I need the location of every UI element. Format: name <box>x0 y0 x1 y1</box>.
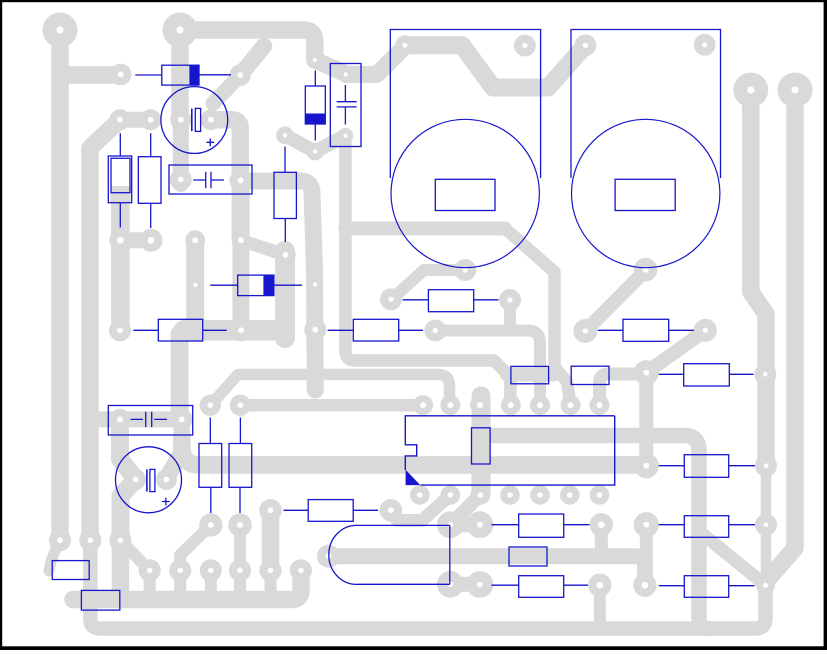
wire vertical x195 pads <box>186 240 204 330</box>
wire pad (60,540) elbow <box>49 540 60 571</box>
wire via V6 corner down to pad C2-2 <box>211 120 240 181</box>
capacitor C3 symbol <box>337 85 357 125</box>
wire IC vertical x481 <box>472 396 491 495</box>
IC U1 pin pad bottom 3 <box>471 485 491 505</box>
resistor R12 body <box>684 364 730 386</box>
resistor R17 body <box>519 576 564 598</box>
pad R8 right / H1 start <box>424 320 446 342</box>
diode D2 leads <box>314 71 316 141</box>
pad relay X2 <box>437 511 464 538</box>
via row2 a <box>109 229 131 251</box>
wire IC bus y435 corner down x699 to bottom bus <box>481 436 709 629</box>
capacitor C1 plate left line <box>191 109 193 132</box>
wire diagonal via V2 to net-B <box>240 46 264 75</box>
pad R6 top <box>200 395 221 416</box>
wire C5 plus pad down to pad row3 <box>121 480 136 541</box>
diode D2 cathode band <box>305 114 325 125</box>
wire H1 from pad (435,330) corner down <box>435 331 540 406</box>
wire pad (240,405) to IC pin1 pad <box>240 399 423 412</box>
board border frame <box>0 0 827 2</box>
diode D3 cathode band <box>263 275 274 296</box>
pad RB right <box>755 514 777 536</box>
pad R8 left <box>304 319 326 341</box>
via row1 b <box>140 109 161 130</box>
capacitor C3 body <box>330 64 361 147</box>
wire diagonal pad (241,240) to pad (285,255) <box>241 240 286 255</box>
potentiometer VR2 window <box>615 179 675 210</box>
resistor R6 leads <box>209 418 212 514</box>
IC U1 pin pad top 4 <box>501 395 521 415</box>
resistor R10 body <box>623 319 669 341</box>
resistor R5 wires <box>133 329 226 331</box>
capacitor C2 body <box>169 165 252 194</box>
resistor R9 wires <box>403 299 499 301</box>
wire relay pads X4-X5 <box>450 577 480 592</box>
pad C3 top <box>338 67 354 83</box>
resistor R16 body <box>519 514 564 537</box>
wire net-A vertical from pad TP1 <box>51 30 69 540</box>
resistor R3 body <box>274 172 296 218</box>
capacitor C5 outline <box>116 447 182 513</box>
IC U1 pin pad top 3 <box>470 395 490 415</box>
capacitor C2 symbol <box>193 172 224 189</box>
via row1 c <box>170 109 191 130</box>
op-amp U1 pin1 triangle <box>406 470 421 485</box>
pad pot2 right <box>694 34 716 56</box>
wire IC pin3 diagonal to relay pad X2 <box>451 495 480 525</box>
pad R7 top <box>230 395 251 416</box>
IC U1 pin pad top 6 <box>561 395 581 415</box>
IC U1 pin pad bottom 5 <box>530 485 550 505</box>
wire stub cap C4 left to C5 plus pad <box>120 419 135 477</box>
pad row4 4 <box>229 559 251 581</box>
wire big pad TP4 down with diagonal <box>766 90 796 582</box>
pad relay X5 <box>467 571 494 598</box>
pad row4 5 <box>259 559 281 581</box>
resistor R6 body <box>199 444 222 488</box>
diode D3 body <box>238 275 274 296</box>
potentiometer VR2 body circle <box>572 119 720 267</box>
potentiometer VR1 frame <box>390 30 540 179</box>
via row1 a <box>110 109 131 130</box>
resistor R19 body <box>684 516 728 538</box>
wire segment y374 east <box>507 368 554 382</box>
IC U1 pin pad bottom 7 <box>590 485 610 505</box>
resistor R15 body <box>308 500 353 522</box>
capacitor C4 body <box>108 406 192 436</box>
diode D1 wires <box>135 74 231 76</box>
pad C5 plus <box>125 469 146 490</box>
wire diagonal x699 to pad (765,585) <box>699 531 766 585</box>
resistor R3 leads <box>284 147 286 243</box>
wire pad TP2 down to via row <box>171 30 189 120</box>
potentiometer VR1 window <box>435 179 495 210</box>
jumper W2 body <box>81 590 119 610</box>
jumper W1 body <box>52 561 89 580</box>
via V2 <box>229 64 251 86</box>
pad row3 a <box>49 529 71 551</box>
resistor R15 wires <box>284 509 379 511</box>
pad TP4 big <box>778 73 813 108</box>
wire R6 pad diagonal to (180,570) <box>180 525 211 570</box>
pad R4 left <box>187 277 203 293</box>
pad P3 <box>307 52 323 68</box>
wire P8 to pot1 pad P4 <box>346 47 405 75</box>
pad R9 left <box>380 288 402 310</box>
IC U1 pin pad top 2 <box>440 395 460 415</box>
wire diagonal pad (120,540) to (149,570) <box>120 540 149 570</box>
capacitor C5 plate right <box>150 469 155 491</box>
pad diode bottom <box>306 143 324 161</box>
wire wiper pot2 to pad (585,331) <box>585 270 646 331</box>
resistor R10 wires <box>598 329 694 331</box>
wire wiper pot1 to pad (391,299) <box>391 270 465 300</box>
wire stub under fuse F1 <box>111 186 131 202</box>
resistor R8 wires <box>328 329 423 331</box>
wire stub (210,570) <box>205 570 217 599</box>
capacitor C4 symbol <box>131 412 167 427</box>
capacitor C5 plus mark <box>162 498 170 506</box>
wire pot1 P4 to pot2 P6 <box>405 45 586 87</box>
IC U1 pin pad bottom 6 <box>560 485 580 505</box>
diode D3 wires <box>210 284 302 286</box>
pad R12 right <box>754 363 776 385</box>
wire R7 pad down to (240,570) <box>234 525 246 570</box>
via row2 c <box>185 230 205 250</box>
resistor R18 body <box>684 455 728 478</box>
resistor R8 body <box>353 319 398 341</box>
op-amp U1 marker box <box>472 428 491 464</box>
pad R17 right <box>588 574 611 597</box>
pad row4 2 <box>169 559 191 581</box>
wire bottom bus y628 <box>90 540 765 628</box>
wire stub pad (601,585) down to y629 bus <box>594 585 606 624</box>
pad R10 left <box>573 319 597 343</box>
diode D1 cathode band <box>189 65 199 85</box>
pad pot2 left <box>575 34 597 56</box>
wire relay pads X2-X3 <box>450 517 480 532</box>
wire via (241,240) to via (241,330) <box>232 240 249 330</box>
via row1 d <box>200 109 221 130</box>
pad C2 left <box>170 169 192 191</box>
pad R3 top <box>276 127 294 145</box>
pad TP3 big <box>733 73 768 108</box>
wire thin vertical pads x766 <box>761 466 772 586</box>
wire pad C2-2 right corner down x312 <box>241 181 316 390</box>
resistor R17 wires <box>492 584 589 586</box>
pad R7 bottom <box>228 513 251 536</box>
pad R5 left <box>109 319 131 341</box>
pad C2 right <box>230 169 252 191</box>
pad relay X3 <box>467 511 494 538</box>
pad R4 right <box>307 277 323 293</box>
wire via V5 down to cap pad <box>173 120 189 184</box>
resistor R2 body <box>138 157 161 204</box>
pad R15 left <box>259 499 282 522</box>
fuse F1 inner <box>111 158 130 192</box>
jumper S2 body <box>571 366 609 384</box>
relay K1 outline <box>329 525 450 584</box>
pad R10 right <box>694 319 717 342</box>
pad row4 1 <box>139 559 161 581</box>
wire via row2 horizontal <box>120 232 151 248</box>
wire stub (180,570) <box>174 570 186 599</box>
wire h3 pads (210,405)-(450,405) <box>210 375 449 406</box>
pad R6 bottom <box>199 513 222 536</box>
wire pad P11 - P10 - P9 vee <box>285 135 345 151</box>
wire diode feed diagonal P3-P8 <box>315 60 343 73</box>
jumper S1 body <box>511 366 549 383</box>
wire wide vertical x179 band330 to C4 pad <box>171 334 189 419</box>
capacitor C5 plate left line <box>146 469 148 491</box>
wire IC bus y465 <box>182 436 646 465</box>
pad R9 right <box>499 289 521 311</box>
capacitor C1 plate right <box>195 108 200 131</box>
wire pad (646,524) down to pad (646,585) <box>640 525 653 586</box>
wire branch y228 east <box>345 222 505 236</box>
wire stub (270,570) <box>265 570 277 600</box>
resistor R12 wires <box>659 373 754 375</box>
pad relay coil left <box>317 545 340 568</box>
wire branch pad TP1 to via V1 <box>60 66 121 84</box>
wire net-D vertical x120 upper <box>111 196 130 330</box>
resistor R2 leads <box>150 133 152 228</box>
diode D1 body <box>162 65 199 85</box>
via (241,330) <box>230 319 252 341</box>
wire stub pad (601,524) down to y556 bus <box>595 525 608 552</box>
pad pot1 left <box>395 35 415 55</box>
wire big pad TP3 down with jog <box>751 90 766 466</box>
pad row3 b <box>79 529 101 551</box>
IC U1 pin pad top 5 <box>530 395 550 415</box>
pad pot1 right <box>514 35 536 57</box>
wire pad (120,540) to T_b1 <box>112 540 130 599</box>
IC U1 pin pad top 1 <box>413 395 433 415</box>
resistor R7 leads <box>239 418 241 514</box>
pad RC right <box>590 513 613 536</box>
resistor R18 wires <box>659 465 755 467</box>
pad row3 c <box>109 529 131 551</box>
resistor R5 body <box>158 319 202 341</box>
pad C4 right <box>171 409 193 431</box>
IC U1 pin pad bottom 4 <box>500 485 520 505</box>
wire stub cap C4 right to C5 minus pad <box>166 419 181 478</box>
resistor R16 wires <box>492 524 590 526</box>
potentiometer VR2 frame <box>571 30 721 179</box>
wire pad (646,372) down to pad (646,465) <box>639 373 653 466</box>
pad RA left <box>634 453 659 478</box>
wire stub pad (510,300) down <box>504 300 516 331</box>
pad RB left <box>634 512 659 537</box>
pad C3 bottom <box>338 128 354 144</box>
pad row4 3 <box>200 559 222 581</box>
wire net-C diagonal+vertical from via V3 <box>90 120 120 541</box>
wire diagonal y228 to x554 <box>505 229 571 405</box>
wire IC pin2 diagonal to pad X1 <box>397 495 450 521</box>
IC U1 pin pad bottom 2 <box>441 485 461 505</box>
pad pot2 wiper <box>634 258 658 282</box>
pad RD right <box>756 576 775 595</box>
via V1 <box>110 64 132 86</box>
pad R15 right X1 <box>380 499 403 522</box>
wire cap C4 pad row <box>102 411 182 427</box>
pad C4 left <box>109 409 131 431</box>
pad pot1 wiper <box>454 259 476 281</box>
resistor R20 body <box>684 576 728 598</box>
wire diagonal into pad (511,405) <box>494 361 510 406</box>
IC U1 pin pad bottom 1 <box>410 485 430 505</box>
fuse F1 outer <box>108 156 131 203</box>
via row2 b <box>140 229 163 252</box>
capacitor C1 plus mark <box>207 139 215 147</box>
pad RA right <box>755 455 777 477</box>
pad TP2 big <box>163 13 198 48</box>
pad C5 minus <box>156 469 177 490</box>
jumper S3 body <box>509 547 547 566</box>
IC U1 pin pad top 7 <box>590 395 610 415</box>
pad RD left <box>633 574 656 597</box>
potentiometer VR1 body circle <box>391 119 539 267</box>
resistor R19 wires <box>659 524 755 526</box>
capacitor C1 outline <box>161 87 228 154</box>
via x285 <box>275 245 296 266</box>
pad TP1 big <box>43 13 78 48</box>
wire pad (270,510) down to (270,570) <box>262 510 280 570</box>
wire horizontal y330 to bar <box>184 320 281 341</box>
wire pad C diagonal to via V6 <box>213 75 240 103</box>
wire stub (240,570) <box>234 570 246 599</box>
diode D2 body <box>305 86 325 124</box>
resistor R20 wires <box>659 585 755 587</box>
wire pad (705,330) diagonal to pad (646,372) <box>646 330 705 372</box>
resistor R9 body <box>428 290 473 312</box>
wire stub pad (599,405) up and right <box>600 374 643 405</box>
wire bus T_b1 <box>73 570 301 600</box>
op-amp U1 outline <box>405 416 614 485</box>
wire via V3 to via V4 row1 <box>120 112 151 128</box>
wire stub (149,570) <box>144 570 156 599</box>
via row2 d <box>232 231 250 249</box>
wire thick bar at x285 <box>275 251 295 338</box>
wire net-B top horizontal from pad TP2 <box>180 30 315 60</box>
pad row4 6 <box>290 559 312 581</box>
resistor R7 body <box>229 444 252 488</box>
pad relay X4 <box>437 571 464 598</box>
fuse F1 leads <box>119 133 121 227</box>
via (646,372) <box>634 360 659 385</box>
wire pad C2-2 to via column <box>232 180 250 240</box>
wire net from C3 pad N down and right <box>345 136 494 361</box>
wire relay bus y556 <box>330 556 645 585</box>
